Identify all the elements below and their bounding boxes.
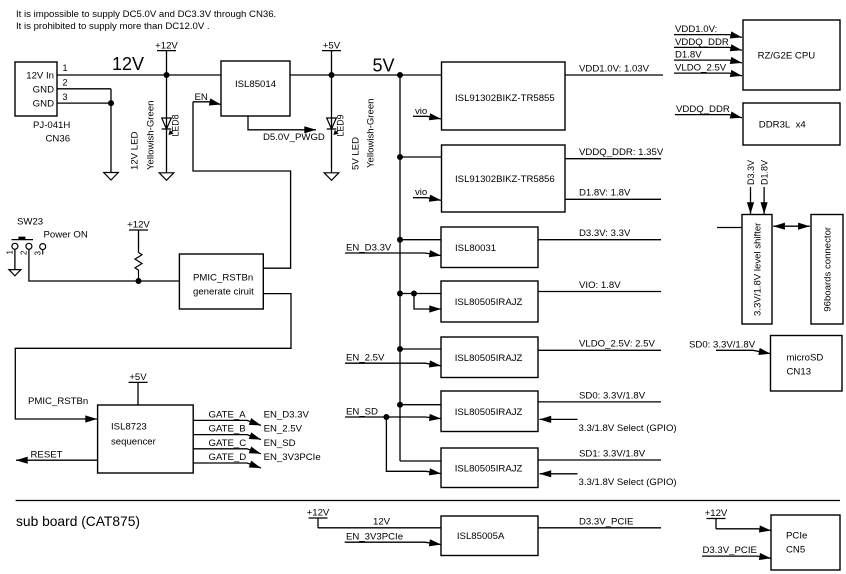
svg-text:VDD1.0V:: VDD1.0V: [675, 24, 717, 35]
svg-text:D3.3V: D3.3V [746, 160, 756, 185]
svg-text:GATE_D: GATE_D [209, 452, 247, 463]
svg-text:3.3/1.8V Select (GPIO): 3.3/1.8V Select (GPIO) [579, 423, 677, 434]
svg-text:ISL80031: ISL80031 [455, 243, 496, 254]
svg-text:ISL80505IRAJZ: ISL80505IRAJZ [455, 463, 523, 474]
svg-text:2: 2 [63, 77, 68, 87]
svg-text:VDD1.0V: 1.03V: VDD1.0V: 1.03V [579, 63, 650, 74]
svg-text:CN5: CN5 [786, 545, 805, 556]
svg-text:It is prohibited to supply mor: It is prohibited to supply more than DC1… [16, 21, 210, 32]
svg-text:VDDQ_DDR: 1.35V: VDDQ_DDR: 1.35V [579, 147, 664, 158]
svg-text:LED8: LED8 [171, 114, 181, 136]
svg-text:Yellowish-Green: Yellowish-Green [146, 100, 157, 170]
svg-text:VLDO_2.5V: 2.5V: VLDO_2.5V: 2.5V [579, 339, 656, 350]
svg-text:EN_3V3PCIe: EN_3V3PCIe [264, 452, 321, 463]
svg-text:D3.3V: 3.3V: D3.3V: 3.3V [579, 228, 631, 239]
svg-text:VDDQ_DDR: VDDQ_DDR [676, 104, 730, 115]
svg-text:sub board (CAT875): sub board (CAT875) [16, 514, 140, 529]
svg-text:3: 3 [63, 92, 68, 102]
svg-text:CN13: CN13 [787, 367, 812, 378]
svg-text:EN_3V3PCIe: EN_3V3PCIe [346, 531, 403, 542]
svg-text:RZ/G2E CPU: RZ/G2E CPU [758, 51, 816, 62]
svg-text:SW23: SW23 [17, 216, 43, 227]
svg-text:12V: 12V [112, 54, 144, 74]
svg-text:It is impossible to supply DC5: It is impossible to supply DC5.0V and DC… [16, 9, 276, 20]
svg-text:VDDQ_DDR: VDDQ_DDR [675, 37, 729, 48]
svg-text:1: 1 [63, 63, 68, 73]
svg-text:5V LED: 5V LED [351, 137, 362, 170]
svg-text:ISL91302BIKZ-TR5856: ISL91302BIKZ-TR5856 [455, 174, 555, 185]
svg-text:SD0: 3.3V/1.8V: SD0: 3.3V/1.8V [689, 340, 756, 351]
svg-text:ISL91302BIKZ-TR5855: ISL91302BIKZ-TR5855 [455, 93, 555, 104]
svg-text:DDR3L x4: DDR3L x4 [759, 120, 807, 131]
svg-text:+12V: +12V [155, 40, 178, 51]
svg-text:Power ON: Power ON [44, 230, 88, 241]
svg-text:LED9: LED9 [336, 114, 346, 136]
svg-text:+12V: +12V [307, 508, 330, 519]
svg-text:D1.8V: D1.8V [675, 50, 702, 61]
svg-text:12V: 12V [373, 516, 391, 527]
svg-text:Yellowish-Green: Yellowish-Green [366, 98, 377, 168]
svg-text:3.3V/1.8V level shifter: 3.3V/1.8V level shifter [753, 222, 764, 316]
svg-text:EN_D3.3V: EN_D3.3V [346, 242, 392, 253]
svg-text:ISL85014: ISL85014 [235, 79, 277, 90]
svg-text:GATE_C: GATE_C [209, 438, 247, 449]
svg-text:VLDO_2.5V: VLDO_2.5V [675, 63, 727, 74]
svg-text:vio: vio [415, 187, 427, 198]
svg-text:SD0: 3.3V/1.8V: SD0: 3.3V/1.8V [579, 390, 646, 401]
svg-text:SD1: 3.3V/1.8V: SD1: 3.3V/1.8V [579, 448, 646, 459]
svg-text:PCIe: PCIe [786, 531, 807, 542]
svg-text:ISL80505IRAJZ: ISL80505IRAJZ [455, 407, 523, 418]
svg-text:GATE_B: GATE_B [209, 424, 246, 435]
svg-text:PMIC_RSTBn: PMIC_RSTBn [193, 273, 253, 284]
svg-text:1: 1 [5, 250, 14, 255]
svg-text:3: 3 [34, 251, 43, 256]
svg-text:96boards connector: 96boards connector [823, 226, 834, 312]
svg-text:ISL8723: ISL8723 [111, 422, 147, 433]
svg-text:generate ciruit: generate ciruit [193, 287, 254, 298]
svg-text:GATE_A: GATE_A [209, 410, 247, 421]
svg-text:+12V: +12V [705, 508, 728, 519]
svg-text:GND: GND [33, 85, 54, 96]
svg-text:ISL80505IRAJZ: ISL80505IRAJZ [455, 353, 523, 364]
svg-text:CN36: CN36 [46, 133, 71, 144]
svg-text:12V In: 12V In [26, 71, 54, 82]
svg-text:D1.8V: D1.8V [760, 160, 770, 185]
svg-text:EN_SD: EN_SD [346, 406, 378, 417]
svg-text:+12V: +12V [127, 220, 150, 231]
svg-text:microSD: microSD [787, 353, 824, 364]
svg-text:EN_SD: EN_SD [264, 438, 296, 449]
svg-text:2: 2 [20, 250, 29, 255]
svg-text:vio: vio [415, 106, 427, 117]
svg-text:3.3/1.8V Select (GPIO): 3.3/1.8V Select (GPIO) [579, 477, 677, 488]
svg-text:PJ-041H: PJ-041H [33, 120, 70, 131]
svg-text:D1.8V: 1.8V: D1.8V: 1.8V [579, 188, 631, 199]
svg-text:12V LED: 12V LED [130, 132, 141, 170]
svg-text:D3.3V_PCIE: D3.3V_PCIE [579, 516, 633, 527]
svg-text:PMIC_RSTBn: PMIC_RSTBn [28, 396, 88, 407]
svg-text:D3.3V_PCIE: D3.3V_PCIE [703, 545, 757, 556]
svg-text:D5.0V_PWGD: D5.0V_PWGD [263, 132, 325, 143]
svg-text:ISL80505IRAJZ: ISL80505IRAJZ [455, 297, 523, 308]
svg-text:GND: GND [33, 99, 54, 110]
svg-text:5V: 5V [373, 56, 395, 76]
svg-text:VIO: 1.8V: VIO: 1.8V [579, 280, 621, 291]
svg-text:+5V: +5V [323, 40, 341, 51]
svg-text:EN_2.5V: EN_2.5V [264, 424, 303, 435]
svg-text:EN_2.5V: EN_2.5V [346, 353, 385, 364]
svg-text:+5V: +5V [129, 372, 147, 383]
svg-text:RESET: RESET [31, 449, 63, 460]
svg-text:sequencer: sequencer [111, 437, 157, 448]
svg-text:EN_D3.3V: EN_D3.3V [264, 410, 310, 421]
svg-text:ISL85005A: ISL85005A [457, 531, 505, 542]
